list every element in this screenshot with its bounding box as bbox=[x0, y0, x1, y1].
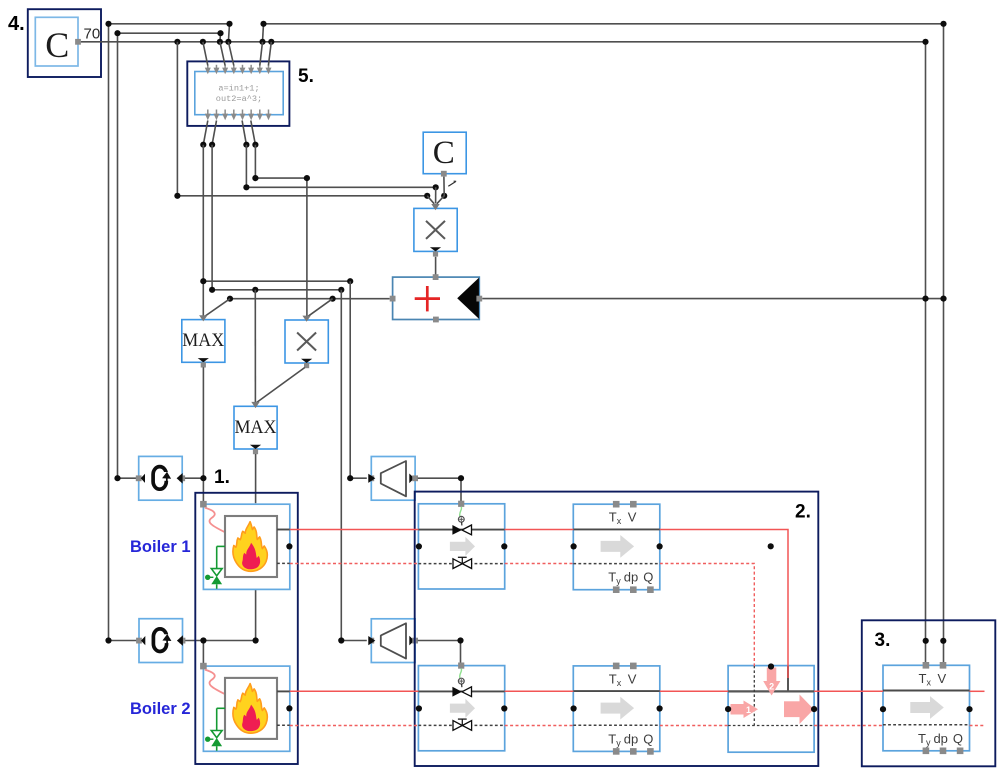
product block X1 bbox=[414, 204, 457, 257]
wire: branch down into boiler B2 input bbox=[202, 641, 204, 665]
wire: H2 branch down into MAX M2 bbox=[254, 290, 256, 402]
valve V2 control connector bbox=[458, 663, 464, 669]
svg-text:C: C bbox=[433, 135, 455, 171]
adder A1 bottom connector bbox=[433, 317, 439, 323]
boiler B2 flame bbox=[233, 684, 267, 734]
junction dots row2 control bbox=[105, 637, 111, 643]
svg-text:1: 1 bbox=[746, 705, 751, 715]
boiler B2 body bbox=[225, 678, 277, 739]
fluid return row2 dashed: pipe U2 to junction J1 bbox=[660, 725, 728, 727]
group frame 4 bbox=[28, 9, 101, 77]
valve V2 flow arrow bbox=[450, 699, 475, 718]
fluid supply row2: valve V2 to pipe U2 bbox=[505, 690, 574, 692]
wire H3 (y=298.7) adder output to left bbox=[230, 298, 390, 300]
gain block G2 (trapezoid icon) bbox=[368, 619, 418, 663]
code block U5 (a=in1+1; out2=a^3;) bbox=[195, 72, 283, 115]
adder block A1 with feedback gain bbox=[393, 277, 480, 319]
adder A1 left connector bbox=[390, 296, 396, 302]
adder A1 top connector bbox=[433, 274, 439, 280]
pipe U1 top connectors Tx,V bbox=[613, 501, 620, 508]
junction dots on H lines bbox=[200, 278, 206, 284]
valve V2 return dashed line bbox=[418, 724, 504, 726]
group frame 5 bbox=[187, 61, 289, 126]
product block X2 bbox=[285, 316, 328, 369]
svg-text:Boiler 1: Boiler 1 bbox=[130, 538, 191, 556]
wire: MAX M1 output down to boiler B1 input bbox=[202, 367, 204, 503]
pipe U2 top connectors Tx,V bbox=[613, 663, 620, 670]
two-way valve pair V1 bbox=[418, 501, 504, 589]
wire: S1 right to MAX M1 net bbox=[185, 477, 204, 479]
valve V2 supply bowtie bbox=[452, 687, 462, 697]
wire: G1 output to valve V1 actuator bbox=[418, 478, 461, 501]
fluid port dots row1 bbox=[286, 543, 292, 549]
valve V2 return bowtie bbox=[458, 718, 467, 720]
svg-text:a=in1+1;: a=in1+1; bbox=[218, 84, 259, 94]
wire: x=212.1 vertical to H2 bbox=[211, 145, 213, 290]
boiler B1 supply stub bbox=[277, 529, 290, 531]
junction J1 port dots bbox=[768, 663, 774, 669]
svg-text:C: C bbox=[45, 25, 69, 65]
wire: line y=33.2 bbox=[118, 32, 221, 34]
wire: X1 input from y=195.8 net bbox=[427, 196, 434, 204]
fluid return row1 dashed: valve V1 to pipe U1 bbox=[505, 563, 574, 565]
block G2 output connector bbox=[409, 636, 414, 646]
wire: U5 bottom pin1 down bbox=[203, 121, 208, 145]
pipe U2 bottom connectors Ty,dp,Q bbox=[613, 748, 620, 755]
junction dots row1 control bbox=[114, 475, 120, 481]
fluid return row2 dashed: boiler B2 to valve V2 bbox=[290, 725, 419, 727]
wire: G2 output to valve V2 actuator bbox=[418, 641, 461, 663]
pipe U3 bottom connectors Ty,dp,Q bbox=[923, 748, 930, 755]
wire: X1 input from y=187.3 net bbox=[435, 187, 437, 203]
fluid supply pipe row1: boiler B1 to valve V1 bbox=[290, 529, 419, 531]
pipe U3 port dots bbox=[880, 706, 886, 712]
wire: adder feedback line to x=943.5 (y=298.6) bbox=[482, 298, 943, 300]
wire: x=203.3 vertical to H1 and MAX M1 input bbox=[202, 145, 204, 317]
boiler B1 fuel line bbox=[217, 545, 225, 547]
boiler B1 bbox=[200, 501, 290, 590]
MAX block M1 input arrow bbox=[199, 315, 207, 321]
fluid return row1 dashed: boiler B1 to valve V1 bbox=[290, 563, 419, 565]
wire: U5 bottom pin2 down bbox=[212, 121, 216, 145]
junction J1 arrow port1 (right) bbox=[731, 704, 744, 715]
wire: C1 output to pipe U3 Tx (y=41.8 horizontal, down at x=925.5) bbox=[81, 42, 926, 662]
fluid supply pipe row1: pipe U1 to junction riser bbox=[660, 530, 788, 679]
wire: H3 diagonal into X2 bbox=[308, 299, 332, 317]
svg-text:MAX: MAX bbox=[235, 417, 277, 438]
junction dots below U5 bbox=[200, 142, 206, 148]
boiler B1 flame bbox=[233, 522, 267, 572]
block G1 input connector bbox=[368, 475, 374, 481]
boiler B2 fuel valve bbox=[211, 731, 222, 738]
svg-text:MAX: MAX bbox=[182, 330, 224, 351]
svg-text:out2=a^3;: out2=a^3; bbox=[216, 94, 262, 104]
two-way valve pair V2 bbox=[418, 663, 504, 751]
svg-text:1.: 1. bbox=[214, 467, 230, 488]
wire: stub (229.5,23.8)-(228.4,41.8) bbox=[228, 24, 229, 42]
product block X1 output bbox=[430, 247, 441, 251]
boiler B2 return stub dashed bbox=[277, 724, 290, 726]
svg-text:70: 70 bbox=[84, 26, 101, 43]
block S2 left connector bbox=[136, 638, 142, 644]
block G1 output connector bbox=[409, 474, 414, 484]
boiler B2 heat squiggle bbox=[205, 670, 225, 695]
junction dots on top lines bbox=[105, 21, 111, 27]
wire: U5 bottom pin5 down bbox=[242, 121, 246, 145]
product block X1 input arrow bbox=[431, 204, 439, 210]
pipe U1 (Tx V / Ty dp Q) bbox=[573, 501, 660, 593]
constant block C2 bbox=[423, 132, 466, 174]
wire: X2 output diagonal to MAX M2 bbox=[257, 368, 305, 403]
svg-text:2: 2 bbox=[769, 682, 774, 692]
svg-text:TydpQ: TydpQ bbox=[608, 570, 653, 587]
wire: stub (220.5,33.2)-(219.9,41.8) bbox=[219, 33, 222, 42]
pipe U3 top connectors Tx,V bbox=[923, 662, 930, 669]
product block X2 input arrow bbox=[302, 316, 310, 322]
pipe U3 (Tx V / Ty dp Q) bbox=[883, 662, 970, 754]
boiler B2 supply stub bbox=[277, 690, 290, 692]
boiler B1 body bbox=[225, 516, 277, 577]
block S1 right connector bbox=[179, 475, 185, 481]
label -1 exponent bbox=[448, 181, 456, 186]
junction J1 internal riser from port 2 bbox=[787, 666, 789, 692]
wire: X1 output to ADD block bbox=[435, 257, 437, 275]
MAX block M2 output bbox=[250, 445, 261, 449]
wire: into U5 top pin3 bbox=[220, 42, 225, 66]
wire: into U5 top pin1 bbox=[203, 42, 208, 66]
group frame 1 bbox=[195, 493, 297, 764]
junction J1 internal return dashed bbox=[728, 725, 814, 727]
wire: into U5 top pin8 bbox=[268, 42, 271, 66]
valve V1 return bowtie bbox=[458, 556, 467, 558]
fluid port dots row2 bbox=[286, 705, 292, 711]
boiler B2 fuel line bbox=[217, 707, 225, 709]
constant block C1 bbox=[35, 17, 78, 66]
block G2 input connector bbox=[368, 638, 374, 644]
wire: stub (263.5,23.8)-(262.5,41.8) bbox=[263, 24, 264, 42]
wire H2 (y=289.8) bbox=[212, 289, 341, 291]
valve V1 flow arrow bbox=[450, 537, 475, 556]
fluid supply pipe row1: valve V1 to pipe U1 bbox=[505, 529, 574, 531]
fluid return row2 dashed: valve V2 to pipe U2 bbox=[505, 725, 574, 727]
wire: S2 right to boiler B2 net bbox=[185, 640, 255, 642]
pipe U1 bottom connectors Ty,dp,Q bbox=[613, 586, 620, 593]
svg-text:TydpQ: TydpQ bbox=[918, 731, 963, 748]
block S1 left connector bbox=[136, 475, 142, 481]
trigger block S2 (loop icon) bbox=[136, 619, 185, 663]
valve V2 supply pipe line bbox=[418, 690, 504, 692]
adder A1 right connector bbox=[476, 296, 482, 302]
wire: MAX M2 output down (upper segment) bbox=[255, 454, 257, 503]
valve V1 return dashed line bbox=[418, 563, 504, 565]
wire: U5 bottom pin6 down bbox=[251, 121, 256, 145]
boiler B2 control input connector bbox=[200, 663, 207, 670]
group frame 3 bbox=[862, 620, 996, 766]
MAX block M2 bbox=[234, 402, 277, 454]
boiler B2 bbox=[200, 663, 290, 752]
fluid return row2 dashed: pipe U3 outlet bbox=[970, 725, 985, 727]
code block U5 bottom pins 1-8 bbox=[205, 110, 272, 121]
constant C1 output pin bbox=[75, 39, 81, 45]
wire: C2 to X1 input bbox=[437, 177, 444, 204]
group frame 2 bbox=[415, 492, 819, 766]
junction J1 arrow outlet (big right) bbox=[784, 701, 800, 717]
block S2 right connector bbox=[180, 638, 186, 644]
flow junction J1 bbox=[728, 666, 814, 753]
wire H1 (y=281.2) bbox=[203, 280, 350, 282]
fluid supply row2: boiler B2 to valve V2 bbox=[290, 690, 419, 692]
wire: x=255.4 vertical then right then down to X2 input (y=178.1) bbox=[255, 145, 307, 317]
MAX block M2 input arrow bbox=[251, 402, 259, 408]
MAX block M1 bbox=[182, 315, 225, 367]
junction dots on X1 input nets bbox=[252, 175, 258, 181]
pipe U2 (Tx V / Ty dp Q) bbox=[573, 663, 660, 755]
wire: into U5 top pin4 bbox=[228, 42, 233, 66]
wire: H3 diagonal into MAX M1 bbox=[205, 299, 230, 316]
svg-text:TydpQ: TydpQ bbox=[608, 731, 653, 748]
wire: left vertical x=108.5 to S2 row bbox=[109, 24, 138, 641]
MAX block M1 output bbox=[198, 358, 209, 362]
wire: top line y=23.8 left segment bbox=[109, 23, 230, 25]
boiler B1 heat squiggle bbox=[205, 508, 225, 533]
wire: left vertical x=117.5 to S1 row bbox=[118, 33, 138, 478]
svg-text:5.: 5. bbox=[298, 66, 314, 87]
junction J1 arrow port2 (down) bbox=[767, 668, 777, 682]
boiler B1 control input connector bbox=[200, 501, 207, 508]
constant C2 output pin bbox=[441, 171, 447, 177]
wire: H1 branch down to gain G1 bbox=[350, 281, 367, 478]
product block X2 output bbox=[301, 359, 312, 363]
wire: C1 branch x=177.4 down and right to X1 (y=195.8) bbox=[177, 42, 427, 196]
junction J1 internal dashed riser bbox=[753, 666, 755, 726]
valve V1 supply pipe line bbox=[418, 529, 504, 531]
fluid supply row2: pipe U2 to junction J1 bbox=[660, 690, 728, 692]
wire: x=246.4 vertical then right to X1 input (y=187.3) bbox=[246, 145, 435, 188]
fluid return row2 dashed: junction J1 to pipe U3 bbox=[814, 725, 883, 727]
wire: top line y=23.8 right segment to pipe U3 V (down at x=943.5) bbox=[264, 24, 944, 662]
code block U5 top pins 1-8 bbox=[205, 65, 272, 75]
boiler B1 fuel valve bbox=[211, 569, 222, 576]
gain block G1 (trapezoid icon) bbox=[368, 457, 418, 501]
wire: H2 branch down to gain G2 bbox=[341, 290, 367, 641]
junction J1 internal supply line bbox=[728, 690, 814, 692]
svg-text:3.: 3. bbox=[875, 630, 891, 651]
fluid supply row2: junction J1 to pipe U3 bbox=[814, 690, 883, 692]
valve V2 actuator stem bbox=[460, 669, 462, 679]
svg-text:2.: 2. bbox=[795, 502, 811, 523]
trigger block S1 (loop icon) bbox=[136, 456, 185, 500]
wire: into U5 top pin7 bbox=[260, 42, 263, 66]
valve V1 supply bowtie bbox=[452, 525, 462, 535]
valve V1 control connector bbox=[458, 501, 464, 507]
svg-text:Boiler 2: Boiler 2 bbox=[130, 700, 191, 718]
fluid return row1 dashed: pipe U1 to junction bbox=[660, 564, 755, 667]
fluid supply row2: pipe U3 outlet bbox=[970, 690, 985, 692]
wire: boiler B1 bottom to row2 net bbox=[255, 590, 257, 641]
svg-text:4.: 4. bbox=[8, 13, 25, 35]
boiler B1 return stub dashed bbox=[277, 562, 290, 564]
valve V1 actuator stem bbox=[460, 507, 462, 517]
